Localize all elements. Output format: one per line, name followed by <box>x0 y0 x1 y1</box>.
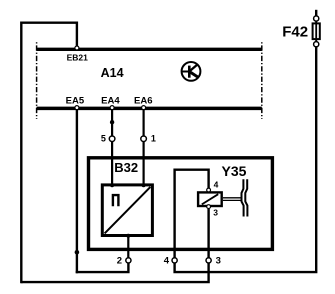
terminal EA6 circle <box>142 106 146 110</box>
valve Y35 body <box>198 192 222 206</box>
splice dot on EA5 wire <box>75 250 80 255</box>
fuse F42 bottom circle <box>314 42 319 47</box>
terminal EA4 circle <box>110 106 114 110</box>
pneumatic line from valve <box>223 197 242 199</box>
control unit A14 bottom bar <box>37 107 262 111</box>
icon: instrument symbol (K in circle) <box>182 62 201 81</box>
control unit A14 right boundary (dash-dot) <box>261 42 263 119</box>
junction dot sensor bottom pin <box>126 234 130 238</box>
junction dot sensor pin (EA6 side) <box>142 183 146 187</box>
svg-text:F42: F42 <box>282 24 308 41</box>
wire: terminal 4 up to valve pin 4 <box>175 170 209 259</box>
component housing box (B32 / Y35) <box>89 158 273 250</box>
svg-text:2: 2 <box>117 256 122 267</box>
connector circle pin 1 <box>141 136 147 142</box>
connector circle pin 5 <box>109 136 115 142</box>
valve pin 4 circle <box>207 188 211 192</box>
fuse F42 body <box>315 21 317 43</box>
terminal EB21 circle <box>75 46 79 50</box>
svg-text:Y35: Y35 <box>222 163 247 179</box>
wire: EA4 down into sensor <box>111 110 113 185</box>
terminal 2 circle <box>126 258 131 263</box>
terminal 4 circle <box>172 258 177 263</box>
sensor diagonal <box>105 187 151 234</box>
svg-text:3: 3 <box>216 256 221 267</box>
valve diagonal <box>202 194 218 204</box>
wire: run to terminal 2 <box>76 263 129 272</box>
terminal 3 circle <box>206 258 211 263</box>
svg-text:B32: B32 <box>114 160 138 175</box>
control unit A14 left boundary (dash-dot) <box>36 42 38 119</box>
wire: valve pin 3 down to terminal 3 <box>207 209 209 258</box>
svg-text:1: 1 <box>151 134 156 144</box>
control unit A14 top bar <box>37 48 262 51</box>
valve pin 3 circle <box>207 205 211 209</box>
wire: sensor bottom to terminal 2 <box>127 236 129 259</box>
svg-text:3: 3 <box>213 208 218 218</box>
terminal EA5 circle <box>75 106 79 110</box>
sensor pressure symbol (pi) <box>113 195 119 206</box>
svg-text:5: 5 <box>101 134 106 144</box>
svg-text:EB21: EB21 <box>67 52 89 62</box>
wire: bottom rail to terminal 3 riser <box>21 263 208 282</box>
wire: EA6 down into sensor <box>143 110 145 185</box>
wire: EA5 down left of housing <box>76 110 78 273</box>
svg-text:4: 4 <box>164 256 170 267</box>
wire: terminal 4 over and up to fuse F42 <box>175 46 317 272</box>
fuse F42 top circle <box>314 16 319 21</box>
svg-text:EA6: EA6 <box>134 95 152 106</box>
splice dot on EA4 wire <box>110 120 114 124</box>
junction dot sensor pin (EA4 side) <box>110 183 114 187</box>
fuse F42 top lead <box>315 10 317 16</box>
mechanical connection squiggle <box>242 179 248 216</box>
svg-text:A14: A14 <box>101 66 124 80</box>
svg-text:4: 4 <box>214 179 219 189</box>
svg-text:EA4: EA4 <box>101 95 120 106</box>
wire: EB21 up, over and down left side <box>21 23 77 284</box>
svg-text:EA5: EA5 <box>66 95 85 106</box>
pressure sensor B32 body <box>102 185 152 236</box>
